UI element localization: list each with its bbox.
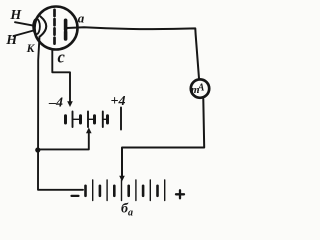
svg-text:Н: Н: [5, 33, 18, 48]
svg-text:К: К: [26, 43, 36, 55]
arrowhead at -4 tap: [67, 101, 73, 107]
label plus (Ba positive): [176, 193, 184, 195]
wire: cathode branch to bias battery tap: [38, 133, 89, 150]
arrowhead at anode battery tap: [119, 176, 125, 182]
control grid (dashed): [53, 10, 56, 44]
svg-text:с: с: [58, 47, 66, 66]
bias battery GB1 cells: [66, 108, 122, 130]
svg-text:а: а: [78, 11, 85, 26]
heater lead H top: [15, 22, 35, 26]
junction dot: [35, 147, 40, 152]
wire: anode to meter: [67, 27, 200, 78]
anode plate: [64, 20, 68, 30]
milliammeter PA1: [191, 79, 209, 97]
svg-text:–4: –4: [48, 96, 63, 111]
svg-text:А: А: [197, 82, 205, 93]
wire: meter to anode battery tap: [122, 99, 204, 178]
wire: grid to bias battery -4 tap: [52, 50, 70, 103]
heater lead H bottom: [14, 31, 34, 37]
cathode K electrode: [41, 17, 47, 37]
label minus (Ba negative): [72, 195, 79, 197]
wire: cathode down to bottom rail: [38, 37, 83, 190]
vacuum tube V1 envelope: [35, 7, 78, 50]
svg-text:+4: +4: [111, 94, 126, 109]
svg-text:Н: Н: [9, 8, 22, 23]
anode battery Ba cells: [86, 180, 165, 201]
heater filament loop: [33, 19, 40, 34]
arrowhead at cathode bias tap: [86, 127, 92, 133]
